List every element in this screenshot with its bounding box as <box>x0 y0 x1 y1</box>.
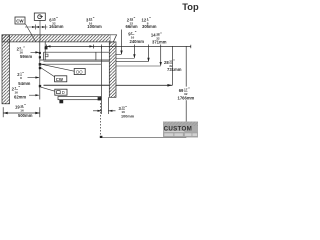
dim line 1766 <box>116 84 172 86</box>
rail foot right <box>98 97 102 100</box>
svg-text:164mm: 164mm <box>49 24 64 29</box>
equipment inner line <box>44 60 110 62</box>
vertical to logo <box>185 46 187 137</box>
main dimension line <box>45 45 191 47</box>
leader 54mm <box>28 76 40 78</box>
svg-text:DO: DO <box>76 69 83 74</box>
dim 500mm <box>3 107 40 117</box>
svg-text:8: 8 <box>20 76 22 80</box>
marker box DO <box>74 69 85 75</box>
pipe stub line C <box>41 63 101 65</box>
svg-text:59mm: 59mm <box>20 54 32 59</box>
leader D low <box>41 87 55 91</box>
svg-text:500mm: 500mm <box>18 113 33 118</box>
step vertical 3 <box>147 45 149 62</box>
node 4 <box>39 63 42 66</box>
mini dimension line <box>25 25 48 30</box>
pipe tee <box>45 54 48 57</box>
label 3 15/16 100mm top <box>86 17 102 30</box>
dashed drop line <box>100 103 102 136</box>
equipment front edge <box>44 84 110 86</box>
leader CW mid <box>41 68 55 77</box>
leader D top <box>39 20 41 42</box>
step line 1 <box>116 54 122 56</box>
svg-text:54mm: 54mm <box>18 81 30 86</box>
marker box CW mid <box>55 76 67 82</box>
svg-text:731mm: 731mm <box>167 67 182 72</box>
equipment divider <box>95 52 97 60</box>
leader CW top <box>26 24 36 42</box>
svg-text:1766mm: 1766mm <box>178 95 195 100</box>
vertical 1766 end <box>171 46 173 85</box>
label 3 15/16 100mm bottom <box>119 105 135 118</box>
wall right stub <box>109 42 116 97</box>
label 19 11/16 500mm <box>15 104 33 119</box>
svg-text:Top: Top <box>182 2 199 12</box>
node 2 <box>39 52 41 54</box>
dim ticks <box>47 45 102 49</box>
marker box D top <box>34 13 45 20</box>
bottom rail <box>58 97 101 100</box>
step line 2 <box>116 58 134 60</box>
mini dim arrows <box>32 26 46 28</box>
wall left band <box>2 35 10 104</box>
leader DO <box>41 64 74 71</box>
node 4b <box>39 67 41 69</box>
pipe line B <box>44 42 46 60</box>
label 9 7/16 240mm <box>128 31 144 45</box>
extension vertical x110.4 below stub <box>107 97 109 114</box>
drop hook <box>100 136 103 138</box>
node 5 <box>39 85 41 87</box>
label 2 1/8 54mm <box>17 71 30 86</box>
svg-text:100mm: 100mm <box>87 24 102 29</box>
svg-text:D: D <box>62 90 65 95</box>
step line 3 <box>116 61 149 63</box>
leader 59mm <box>31 51 40 53</box>
dim arrow blobs <box>47 45 94 47</box>
svg-text:305mm: 305mm <box>142 24 157 29</box>
label 6 15/32 164mm <box>49 17 64 30</box>
step vertical 4 <box>160 45 162 67</box>
pipe line A <box>39 42 41 100</box>
extension vertical x102 <box>101 46 103 114</box>
svg-text:16: 16 <box>20 108 24 112</box>
svg-text:CW: CW <box>56 77 64 82</box>
svg-text:62mm: 62mm <box>14 94 26 99</box>
label 28 25/32 731mm <box>164 59 182 72</box>
bottom dim 100mm <box>93 110 116 112</box>
label 14 19/32 371mm <box>151 32 167 45</box>
wall top band <box>2 35 117 42</box>
svg-text:240mm: 240mm <box>130 39 145 44</box>
bottom connect line <box>102 137 186 139</box>
svg-text:371mm: 371mm <box>152 40 167 45</box>
svg-text:16: 16 <box>121 110 125 114</box>
rail foot left <box>59 100 63 103</box>
marker box D low <box>55 89 67 95</box>
svg-text:7: 7 <box>131 31 133 35</box>
equipment top edge <box>40 52 110 60</box>
node 3 <box>39 56 41 58</box>
leader 62mm <box>29 94 39 96</box>
label 2 7/16 62mm <box>12 86 27 100</box>
step line 4 <box>116 65 161 67</box>
label 2 19/32 66mm <box>126 17 138 30</box>
arrow 1766 <box>167 84 172 87</box>
svg-text:5: 5 <box>19 46 21 50</box>
label 12 1/8 305mm <box>142 17 157 30</box>
watermark logo <box>163 122 198 138</box>
label 69 17/32 1766mm <box>177 87 195 101</box>
equipment left bracket <box>43 52 45 60</box>
step vertical 1 <box>120 30 122 55</box>
svg-text:100mm: 100mm <box>121 115 135 119</box>
svg-text:CW: CW <box>16 19 24 24</box>
svg-text:66mm: 66mm <box>126 24 138 29</box>
step vertical 2 <box>133 45 135 59</box>
label 2 5/16 59mm <box>17 46 33 59</box>
svg-text:7: 7 <box>14 86 16 90</box>
marker box CW top <box>15 17 25 24</box>
node 1 <box>45 47 48 50</box>
